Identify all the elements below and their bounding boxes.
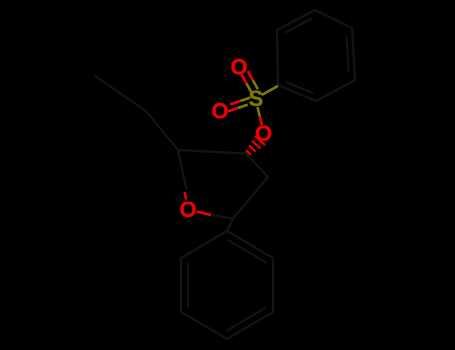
svg-text:O: O [179, 197, 196, 222]
ring bond C2-C3 [233, 177, 268, 219]
ring bond C4-C5 [178, 150, 246, 154]
left substituent bond C6-CH2 [146, 111, 178, 150]
ring bond C5-C6 [178, 150, 185, 183]
bond S-C(aryl) carbon half [277, 85, 278, 87]
left substituent bond CH2-CH3 [95, 76, 146, 111]
ring bond C3-C4 [246, 154, 268, 178]
hashed wedge bond O(ester)-C4 stereocentre [246, 136, 265, 155]
tetrahydropyran ring skeleton [178, 150, 268, 219]
double bond S=O (top): line 2 oxygen half [248, 71, 253, 80]
svg-text:O: O [230, 55, 247, 80]
bond S-C(aryl) sulfur half [263, 87, 278, 95]
double bond S=O (top): line 1 sulfur half [247, 84, 252, 93]
double bond S=O (left): line 1 sulfur half [240, 98, 250, 101]
double bond S=O (top): line 1 oxygen half [242, 75, 247, 84]
bond S-O(ester): sulfur half [258, 107, 260, 117]
benzene ring of benzenesulfonyl (top right) [277, 10, 355, 101]
double bond S=O (left): line 1 oxygen half [230, 101, 240, 104]
double bond S=O (left): line 2 oxygen half [228, 108, 238, 111]
ring bond O1-C6 oxygen half [185, 192, 187, 200]
svg-text:O: O [211, 99, 228, 124]
phenyl ring (bottom) [181, 231, 273, 339]
double bond S=O (left): line 2 sulfur half [238, 105, 248, 108]
ring bond O1-C2 oxygen half [197, 212, 212, 216]
ring bond C6-O1 carbon half [185, 183, 187, 188]
bond C2-phenyl(bottom) [227, 219, 233, 232]
bond S-O(ester): oxygen half [260, 117, 262, 126]
double bond S=O (top): line 2 sulfur half [253, 80, 258, 89]
svg-text:O: O [255, 121, 272, 146]
svg-text:S: S [249, 86, 264, 111]
ring bond O1-C2 carbon half [211, 215, 233, 219]
